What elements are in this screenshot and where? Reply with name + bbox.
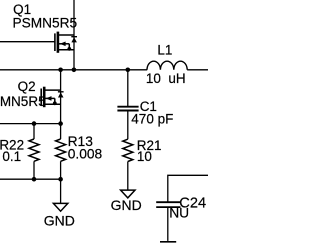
wire lower gate rail: [0, 123, 61, 125]
wire Q1 drain from top edge: [73, 0, 75, 35]
capacitor C1: [117, 107, 138, 111]
wire bottom rail: [0, 178, 62, 180]
node rail3 R22 junction: [32, 177, 37, 182]
wire switch-node rail: [0, 69, 147, 71]
wire C1 bottom to R21: [127, 111, 129, 140]
svg-text:GND: GND: [111, 197, 142, 213]
svg-text:470 pF: 470 pF: [131, 111, 173, 126]
wire R22 bottom lead: [33, 161, 35, 179]
inductor L1: [147, 61, 187, 70]
node switch rail / Q2 drain junction: [58, 68, 63, 73]
resistor R13: [56, 139, 66, 161]
svg-text:10 uH: 10 uH: [146, 71, 186, 86]
svg-text:GND: GND: [44, 212, 75, 228]
node switch rail / Q1 source junction: [72, 68, 77, 73]
resistor R22: [29, 139, 39, 161]
wire C1 top lead: [127, 70, 129, 107]
wire R13 bottom lead: [60, 161, 62, 179]
ground under R13: [53, 203, 67, 211]
svg-text:L1: L1: [157, 42, 172, 57]
wire R22 top lead: [33, 124, 35, 139]
node switch rail / C1 tap junction: [126, 68, 131, 73]
svg-text:0.008: 0.008: [68, 147, 103, 162]
wire L1 right lead to right edge: [187, 69, 208, 71]
transistor Q2: [41, 87, 63, 124]
wire Q2 drain: [60, 70, 62, 90]
wire R21 to GND: [127, 162, 129, 191]
svg-text:Q2: Q2: [18, 79, 36, 94]
wire Q1 gate from left edge: [0, 41, 55, 43]
svg-text:0.1: 0.1: [2, 149, 21, 164]
node rail2 R22 tap: [32, 121, 37, 126]
capacitor C24: [156, 202, 180, 207]
ground under C24 (clipped at bottom edge): [160, 241, 176, 243]
svg-text:MN5R5: MN5R5: [0, 94, 46, 109]
ground under R21: [121, 190, 135, 198]
wire C24 bottom lead: [167, 207, 169, 241]
node rail3 R13 junction: [58, 177, 63, 182]
wire to GND under R13: [60, 179, 62, 203]
wire R13 top lead: [60, 124, 62, 139]
svg-text:NU: NU: [169, 205, 189, 220]
transistor Q1: [55, 32, 77, 70]
wire C24 branch from right edge: [168, 175, 208, 202]
node rail2 Q2 source junction: [58, 121, 63, 126]
svg-text:PSMN5R5: PSMN5R5: [13, 16, 78, 31]
resistor R21: [123, 139, 133, 161]
svg-text:10: 10: [137, 149, 152, 164]
